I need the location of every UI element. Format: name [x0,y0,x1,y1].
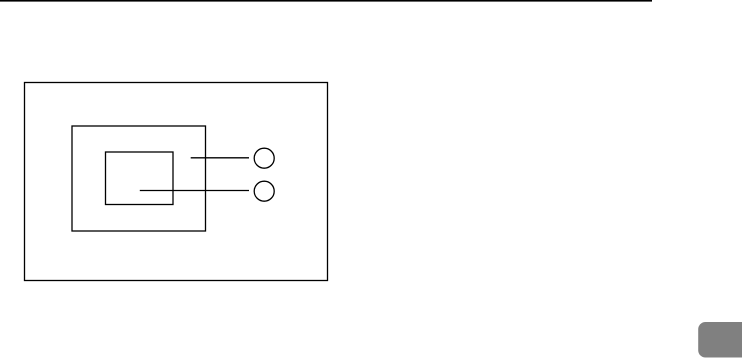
middle rectangle (frame) [72,126,206,231]
callout circle 1 [254,148,274,168]
chapter tab (bottom right) [698,322,742,358]
callout line 1 [191,157,249,159]
callout line 2 [140,190,249,192]
inner rectangle (focus frame) [106,152,174,205]
outer rectangle (panel outline) [25,83,328,281]
callout circle 2 [254,181,274,201]
top rule [0,0,652,2]
